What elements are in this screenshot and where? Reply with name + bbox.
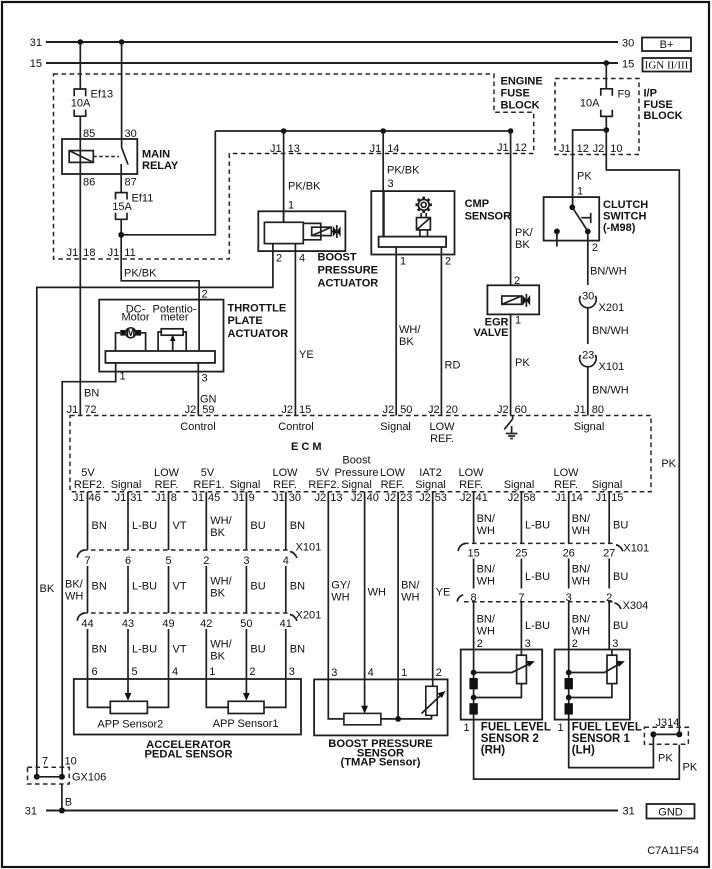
svg-text:3: 3 xyxy=(388,178,394,190)
pin label J1|14 xyxy=(370,143,400,155)
svg-text:WH/: WH/ xyxy=(210,515,232,527)
svg-text:(TMAP Sensor): (TMAP Sensor) xyxy=(341,757,421,769)
wire J1|12 to EGR pin2 xyxy=(510,131,512,285)
wire label GY/WH xyxy=(331,580,351,604)
pin label J2|58 xyxy=(508,492,536,504)
wire Ef13 to relay pin85 xyxy=(79,116,81,139)
svg-text:THROTTLE: THROTTLE xyxy=(228,303,287,315)
fuel sensor pin numbers 2 3 2 3 xyxy=(477,638,619,650)
node LOW REF. J2|41 xyxy=(458,467,484,491)
svg-text:BK: BK xyxy=(210,588,225,600)
svg-text:L-BU: L-BU xyxy=(132,581,157,593)
svg-text:ACTUATOR: ACTUATOR xyxy=(318,278,379,290)
wire GX106 to rail 31 xyxy=(61,784,63,811)
svg-text:41: 41 xyxy=(280,618,292,630)
svg-text:LOW: LOW xyxy=(380,467,406,479)
svg-text:WH: WH xyxy=(477,525,495,537)
junction rail31/relay pin30 xyxy=(119,39,125,45)
svg-text:BOOST: BOOST xyxy=(318,252,357,264)
svg-text:14: 14 xyxy=(387,143,399,155)
connector X101 row (fuel side) xyxy=(458,543,649,555)
wire throttle pin2 inside to base xyxy=(198,300,200,351)
pin label J1|45 xyxy=(192,492,220,504)
svg-text:J1: J1 xyxy=(497,142,509,154)
svg-text:Control: Control xyxy=(180,421,215,433)
actuator BOOST PRESSURE ACTUATOR box xyxy=(258,211,345,251)
wire label BN/WH xyxy=(572,513,591,537)
junction below F9 xyxy=(603,127,609,133)
APP pin numbers 6 5 4 1 2 3 xyxy=(92,666,295,678)
wire LH pin1 to J314 left xyxy=(569,720,654,768)
svg-text:1: 1 xyxy=(400,256,406,268)
svg-text:WH: WH xyxy=(572,626,590,638)
svg-text:B: B xyxy=(65,797,72,809)
svg-text:9: 9 xyxy=(249,492,255,504)
junction J1|13 xyxy=(281,128,287,134)
svg-text:(-M98): (-M98) xyxy=(603,222,636,234)
svg-text:2: 2 xyxy=(203,555,209,567)
svg-text:1: 1 xyxy=(288,200,294,212)
ground symbol at J2|60 xyxy=(504,416,517,439)
svg-text:5V: 5V xyxy=(201,467,215,479)
svg-text:J1: J1 xyxy=(67,404,79,416)
wire relay pin86 down to ECM J1|72 xyxy=(79,174,81,416)
svg-text:PK/BK: PK/BK xyxy=(387,165,420,177)
svg-text:REF.: REF. xyxy=(430,433,454,445)
svg-text:(RH): (RH) xyxy=(481,745,505,757)
relay pin labels 85 30 86 87 xyxy=(83,128,137,189)
svg-text:1: 1 xyxy=(558,722,564,734)
svg-text:11: 11 xyxy=(124,247,135,259)
wire label BN/WH xyxy=(572,564,591,588)
svg-text:3: 3 xyxy=(331,667,337,679)
svg-text:Signal: Signal xyxy=(230,479,261,491)
svg-text:BN: BN xyxy=(84,388,99,400)
svg-text:J2: J2 xyxy=(351,492,363,504)
svg-text:PK: PK xyxy=(661,458,676,470)
svg-text:E C M: E C M xyxy=(291,441,322,453)
TMAP internal bus wire xyxy=(328,679,431,719)
svg-text:PLATE: PLATE xyxy=(228,315,263,327)
svg-text:PK: PK xyxy=(658,753,673,765)
clutch switch title xyxy=(603,199,648,234)
svg-text:F9: F9 xyxy=(618,89,631,101)
svg-text:3: 3 xyxy=(202,373,208,385)
svg-text:4: 4 xyxy=(172,666,178,678)
svg-text:BN: BN xyxy=(290,520,305,532)
svg-text:REF.: REF. xyxy=(554,479,578,491)
node 5V REF2. J2|13 xyxy=(308,467,339,491)
svg-text:LOW: LOW xyxy=(272,467,298,479)
svg-text:30: 30 xyxy=(289,492,301,504)
svg-text:GY/: GY/ xyxy=(331,580,351,592)
junction J1|12 rail end xyxy=(508,128,514,134)
svg-text:2: 2 xyxy=(249,666,255,678)
APP Sensor2 wiring xyxy=(88,679,169,707)
wire rail15 to fuse F9 xyxy=(605,63,607,89)
svg-text:L-BU: L-BU xyxy=(132,644,157,656)
wire label WH/BK xyxy=(210,576,232,600)
svg-text:44: 44 xyxy=(81,618,93,630)
wire relay pin87 to fuse Ef11 xyxy=(120,174,122,193)
svg-text:7: 7 xyxy=(42,756,48,768)
svg-text:YE: YE xyxy=(299,349,314,361)
pin label J1|11 xyxy=(108,247,136,259)
svg-text:WH/: WH/ xyxy=(210,639,232,651)
wire label PK/BK J1|12 two-line xyxy=(515,227,534,251)
svg-text:J2: J2 xyxy=(384,492,396,504)
svg-text:REF2.: REF2. xyxy=(308,479,339,491)
svg-text:2: 2 xyxy=(436,667,442,679)
pin label J2|59 xyxy=(185,404,215,416)
svg-text:8: 8 xyxy=(171,492,177,504)
LH sender internals xyxy=(565,650,625,720)
wire J2|13 GY/WH to TMAP pin3 xyxy=(327,492,329,680)
svg-text:WH: WH xyxy=(477,576,495,588)
wire J1|46 BN segment to X101 xyxy=(87,492,89,550)
svg-text:FUEL LEVEL: FUEL LEVEL xyxy=(481,722,551,734)
svg-text:31: 31 xyxy=(25,806,37,818)
svg-text:BN: BN xyxy=(92,581,107,593)
svg-text:BN/: BN/ xyxy=(477,513,496,525)
svg-text:4: 4 xyxy=(299,253,305,265)
pin label J1|12 I/P xyxy=(559,143,589,155)
junction J1|14 xyxy=(380,128,386,134)
svg-text:VALVE: VALVE xyxy=(473,327,508,339)
svg-text:50: 50 xyxy=(240,618,252,630)
wire J1|14 BN/WH segment xyxy=(568,492,570,544)
wire J1|15 BU segment xyxy=(608,492,610,544)
svg-text:J1: J1 xyxy=(115,492,127,504)
svg-text:J1: J1 xyxy=(574,404,586,416)
wire CMP pin3 inside xyxy=(383,191,385,237)
svg-text:J2: J2 xyxy=(185,404,197,416)
node LOW REF. J2|20 xyxy=(429,421,455,445)
svg-text:1: 1 xyxy=(209,666,215,678)
svg-text:13: 13 xyxy=(330,492,342,504)
wire label BK/WH two-line xyxy=(65,579,84,603)
svg-text:WH/: WH/ xyxy=(210,576,232,588)
svg-text:BK: BK xyxy=(40,583,55,595)
wire junction left-down to J1|12 clutch feed xyxy=(573,130,607,207)
wires X101 to X304 (4) xyxy=(474,559,610,589)
svg-text:BN/: BN/ xyxy=(572,513,591,525)
svg-text:BU: BU xyxy=(250,520,265,532)
svg-text:J1: J1 xyxy=(555,492,567,504)
relay MAIN RELAY box xyxy=(62,139,137,174)
svg-text:FUSE: FUSE xyxy=(501,88,530,100)
pin label J2|10 xyxy=(593,143,623,155)
svg-text:46: 46 xyxy=(89,492,101,504)
wire relay pin85 coil pin86 xyxy=(79,139,81,174)
svg-text:SENSOR 2: SENSOR 2 xyxy=(481,733,539,745)
wire X101 to ECM J1|80 BN/WH xyxy=(587,367,589,416)
wire J2|58 L-BU segment xyxy=(520,492,522,544)
fuse F9 10A xyxy=(580,89,630,117)
fuse Ef13 10A xyxy=(71,89,113,117)
svg-text:2: 2 xyxy=(202,289,208,301)
wire label BN/WH xyxy=(572,614,591,638)
svg-text:10A: 10A xyxy=(71,98,91,110)
node IAT2 Signal J2|53 xyxy=(415,467,446,491)
pin label J1|80 xyxy=(574,404,604,416)
node 5V REF2. J1|46 xyxy=(74,467,105,491)
bus rail 15 xyxy=(46,62,618,64)
svg-text:RELAY: RELAY xyxy=(142,160,179,172)
svg-text:IAT2: IAT2 xyxy=(419,467,441,479)
wire F9 to junction xyxy=(605,116,607,130)
svg-text:1: 1 xyxy=(401,667,407,679)
svg-text:3: 3 xyxy=(612,638,618,650)
svg-text:ACTUATOR: ACTUATOR xyxy=(228,328,289,340)
node LOW REF. J1|8 xyxy=(154,467,180,491)
svg-text:60: 60 xyxy=(515,404,527,416)
wire label BN/WH xyxy=(401,580,420,604)
svg-text:J1: J1 xyxy=(270,143,282,155)
pin label J1|46 xyxy=(73,492,101,504)
CMP base plate xyxy=(379,237,447,247)
svg-text:WH: WH xyxy=(477,626,495,638)
svg-text:PRESSURE: PRESSURE xyxy=(318,265,379,277)
boost actuator valve symbol xyxy=(333,225,341,238)
svg-text:J1: J1 xyxy=(155,492,167,504)
svg-text:J2: J2 xyxy=(383,404,395,416)
svg-text:LOW: LOW xyxy=(429,421,455,433)
pin label J1|18 xyxy=(67,247,96,259)
wire CMP pin1 stub xyxy=(395,247,397,255)
wire rail31 to fuse Ef13 xyxy=(79,42,81,89)
svg-text:BU: BU xyxy=(613,520,628,532)
svg-text:BN/: BN/ xyxy=(477,564,496,576)
svg-text:X101: X101 xyxy=(623,543,649,555)
svg-text:6: 6 xyxy=(92,666,98,678)
svg-text:J2: J2 xyxy=(460,492,472,504)
throttle title xyxy=(228,303,289,341)
svg-text:J2: J2 xyxy=(315,492,327,504)
svg-text:2: 2 xyxy=(477,638,483,650)
svg-text:L-BU: L-BU xyxy=(525,571,550,583)
svg-text:J1: J1 xyxy=(67,247,79,259)
wire clutch pin2 down BN/WH to X201 xyxy=(587,231,589,285)
svg-text:Signal: Signal xyxy=(341,479,372,491)
svg-text:40: 40 xyxy=(367,492,379,504)
svg-text:87: 87 xyxy=(125,177,137,189)
svg-text:L-BU: L-BU xyxy=(525,520,550,532)
svg-text:50: 50 xyxy=(400,404,412,416)
svg-text:MAIN: MAIN xyxy=(142,149,170,161)
sensor BOOST PRESSURE (TMAP) box xyxy=(314,679,448,735)
svg-text:Motor: Motor xyxy=(121,312,149,324)
throttle Potentiometer label xyxy=(152,303,196,323)
svg-text:10: 10 xyxy=(610,143,622,155)
svg-text:BN: BN xyxy=(92,644,107,656)
svg-text:C7A11F54: C7A11F54 xyxy=(647,845,699,857)
wire J1|31 L-BU segment xyxy=(127,492,129,550)
wire label WH/BK two-line xyxy=(399,324,421,348)
svg-text:5V: 5V xyxy=(316,467,330,479)
svg-text:26: 26 xyxy=(563,548,575,560)
engine fuse block dashed outline xyxy=(54,74,534,259)
X304 pin numbers 8 7 3 2 xyxy=(471,592,613,604)
svg-text:2: 2 xyxy=(445,256,451,268)
svg-text:REF.: REF. xyxy=(381,479,405,491)
svg-text:41: 41 xyxy=(476,492,488,504)
pin label J2|40 xyxy=(351,492,379,504)
wire J1|13 to boost actuator pin1 xyxy=(283,131,285,222)
X201 pin numbers 44 43 49 42 50 41 xyxy=(81,618,292,630)
wire J2|53 YE to TMAP pin2 xyxy=(432,492,434,687)
svg-text:BK: BK xyxy=(210,527,225,539)
junction rail15/F9 xyxy=(604,60,610,66)
svg-text:Pressure: Pressure xyxy=(334,467,378,479)
wire junction down-right to J2|10 PK feed xyxy=(606,130,679,734)
wire boost pin2 stub xyxy=(272,244,274,252)
svg-text:J1: J1 xyxy=(370,143,382,155)
wire J1|9 BU segment xyxy=(245,492,247,550)
svg-text:LOW: LOW xyxy=(553,467,579,479)
wire junction to PK/BK rail riser xyxy=(121,131,215,235)
svg-text:Boost: Boost xyxy=(342,455,370,467)
svg-text:1: 1 xyxy=(577,186,583,198)
svg-text:30: 30 xyxy=(582,291,594,303)
svg-text:Ef11: Ef11 xyxy=(132,193,154,205)
svg-text:1: 1 xyxy=(120,371,126,383)
svg-text:PK/BK: PK/BK xyxy=(288,181,321,193)
wire J1|11 PK/BK to throttle pin2 xyxy=(121,259,199,300)
throttle DC-Motor label xyxy=(121,303,149,323)
svg-text:4: 4 xyxy=(368,667,374,679)
sensor FUEL LEVEL SENSOR 2 (RH) box xyxy=(461,650,543,720)
svg-text:VT: VT xyxy=(173,581,187,593)
svg-text:Signal: Signal xyxy=(380,421,411,433)
svg-text:SENSOR 1: SENSOR 1 xyxy=(572,733,631,745)
pin label J1|72 xyxy=(67,404,97,416)
svg-text:BK: BK xyxy=(515,239,530,251)
wire J2|23 BN/WH to TMAP pin1 xyxy=(397,492,399,719)
svg-text:Signal: Signal xyxy=(111,479,142,491)
svg-text:PK: PK xyxy=(683,762,698,774)
svg-text:80: 80 xyxy=(592,404,604,416)
svg-text:3: 3 xyxy=(525,638,531,650)
svg-text:53: 53 xyxy=(435,492,447,504)
svg-text:BN/: BN/ xyxy=(477,614,496,626)
svg-text:BU: BU xyxy=(250,644,265,656)
svg-text:12: 12 xyxy=(515,142,527,154)
splice J314 xyxy=(644,717,688,744)
svg-text:RD: RD xyxy=(445,360,461,372)
svg-text:REF1.: REF1. xyxy=(193,479,224,491)
wire EGR pin1 PK to ECM J2|60 xyxy=(510,314,512,415)
pin label J2|50 xyxy=(383,404,413,416)
svg-text:WH: WH xyxy=(572,576,590,588)
svg-text:X201: X201 xyxy=(599,302,625,314)
svg-text:30: 30 xyxy=(125,128,137,140)
svg-text:X101: X101 xyxy=(599,361,625,373)
svg-text:30: 30 xyxy=(622,38,634,50)
svg-text:BN/: BN/ xyxy=(401,580,420,592)
svg-text:VT: VT xyxy=(173,644,187,656)
wire boost pin4 YE to ECM J2|15 xyxy=(294,251,296,415)
svg-text:J1: J1 xyxy=(273,492,285,504)
CMP gear icon xyxy=(416,197,432,213)
motor M symbol xyxy=(116,327,146,351)
fuse Ef11 15A xyxy=(112,193,153,220)
junction TMAP pin1 xyxy=(395,716,401,722)
svg-text:SENSOR: SENSOR xyxy=(465,211,512,223)
svg-text:BU: BU xyxy=(613,620,628,632)
arrowhead TMAP pin4 xyxy=(361,706,368,714)
pin label J1|30 xyxy=(273,492,301,504)
EGR valve symbol xyxy=(523,294,531,307)
svg-text:WH: WH xyxy=(331,592,349,604)
svg-text:Signal: Signal xyxy=(415,479,446,491)
svg-text:20: 20 xyxy=(446,404,458,416)
svg-text:SWITCH: SWITCH xyxy=(603,211,646,223)
wires X101 to X201 (6) xyxy=(88,566,286,613)
svg-text:2: 2 xyxy=(276,253,282,265)
svg-text:BN/: BN/ xyxy=(572,564,591,576)
svg-text:WH: WH xyxy=(401,592,419,604)
pin label J2|60 xyxy=(497,404,527,416)
connector X201 row (left) xyxy=(77,610,321,622)
EGR title xyxy=(473,317,508,339)
node Boost Pressure Signal J2|40 xyxy=(334,455,378,492)
LH title xyxy=(572,722,642,757)
svg-text:WH/: WH/ xyxy=(399,324,421,336)
resistor APP Sensor2 xyxy=(110,701,147,713)
svg-text:J2: J2 xyxy=(593,143,605,155)
svg-text:10A: 10A xyxy=(580,98,600,110)
relay title xyxy=(142,149,179,172)
svg-text:58: 58 xyxy=(523,492,535,504)
svg-text:45: 45 xyxy=(208,492,220,504)
wire RH pin1 to J314 right xyxy=(474,720,680,780)
svg-text:86: 86 xyxy=(83,177,95,189)
node LOW REF. J1|30 xyxy=(272,467,298,491)
pin label J1|15 xyxy=(596,492,624,504)
relay coil xyxy=(69,151,93,163)
X101 pin numbers 7 6 5 2 3 4 xyxy=(84,555,288,567)
wire J1|14 to CMP pin3 xyxy=(382,131,384,237)
PK/BK distribution rail xyxy=(215,130,510,132)
wire throttle pin3 GN to ECM J2|59 xyxy=(197,363,199,416)
throttle plate actuator box xyxy=(99,300,223,372)
svg-text:Ef13: Ef13 xyxy=(91,89,114,101)
svg-text:43: 43 xyxy=(122,618,134,630)
svg-text:1: 1 xyxy=(515,315,521,327)
svg-text:WH: WH xyxy=(368,587,386,599)
pin label J1|8 xyxy=(155,492,177,504)
svg-text:ENGINE: ENGINE xyxy=(501,76,543,88)
wires X201 to APP sensor (6) xyxy=(88,629,286,698)
pin label J1|31 xyxy=(115,492,143,504)
svg-text:5: 5 xyxy=(132,666,138,678)
svg-text:FUSE: FUSE xyxy=(644,99,673,111)
throttle base plate xyxy=(105,351,215,363)
relay coil-contact dashed link xyxy=(93,156,119,158)
svg-text:PK: PK xyxy=(577,171,592,183)
valve EGR box xyxy=(487,285,539,314)
svg-text:27: 27 xyxy=(603,548,615,560)
svg-text:M: M xyxy=(126,327,135,339)
wire CMP pin2 RD to ECM J2|20 xyxy=(440,255,442,416)
wire Ef11 to junction xyxy=(120,219,122,259)
EGR solenoid xyxy=(502,296,522,304)
svg-text:(LH): (LH) xyxy=(572,745,595,757)
svg-text:APP Sensor2: APP Sensor2 xyxy=(97,719,163,731)
svg-text:L-BU: L-BU xyxy=(525,620,550,632)
svg-text:Control: Control xyxy=(278,421,313,433)
